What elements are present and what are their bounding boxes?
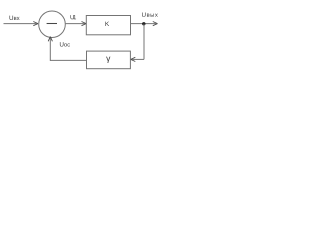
wire: output line <box>131 23 157 25</box>
wire: left vertical feedback line up to summing junction <box>49 38 51 61</box>
junction node (dot) on output line <box>142 22 145 25</box>
arrowhead into gamma block <box>131 57 136 61</box>
minus sign inside summing junction <box>47 23 57 25</box>
summing junction (subtractor) <box>39 11 66 38</box>
node label Uос <box>60 42 70 46</box>
background <box>0 0 168 86</box>
arrowhead into summing junction bottom <box>48 37 52 42</box>
node label Uвх <box>9 16 19 20</box>
label K <box>105 22 109 26</box>
wire: into gamma block <box>132 58 145 60</box>
block gamma (feedback) <box>87 51 131 69</box>
wire: gamma block output to the left <box>50 59 86 61</box>
node label Uвых <box>142 12 158 16</box>
arrowhead into summing junction <box>33 22 38 26</box>
wire: input line <box>4 23 37 25</box>
arrowhead into block K <box>82 22 87 26</box>
arrowhead output <box>153 22 158 26</box>
block K (amplifier) <box>86 16 130 35</box>
label gamma <box>106 57 110 63</box>
node label U1 <box>70 15 76 19</box>
wire: vertical feedback tap from output <box>143 24 145 60</box>
wire: summing junction to block K <box>66 23 86 25</box>
